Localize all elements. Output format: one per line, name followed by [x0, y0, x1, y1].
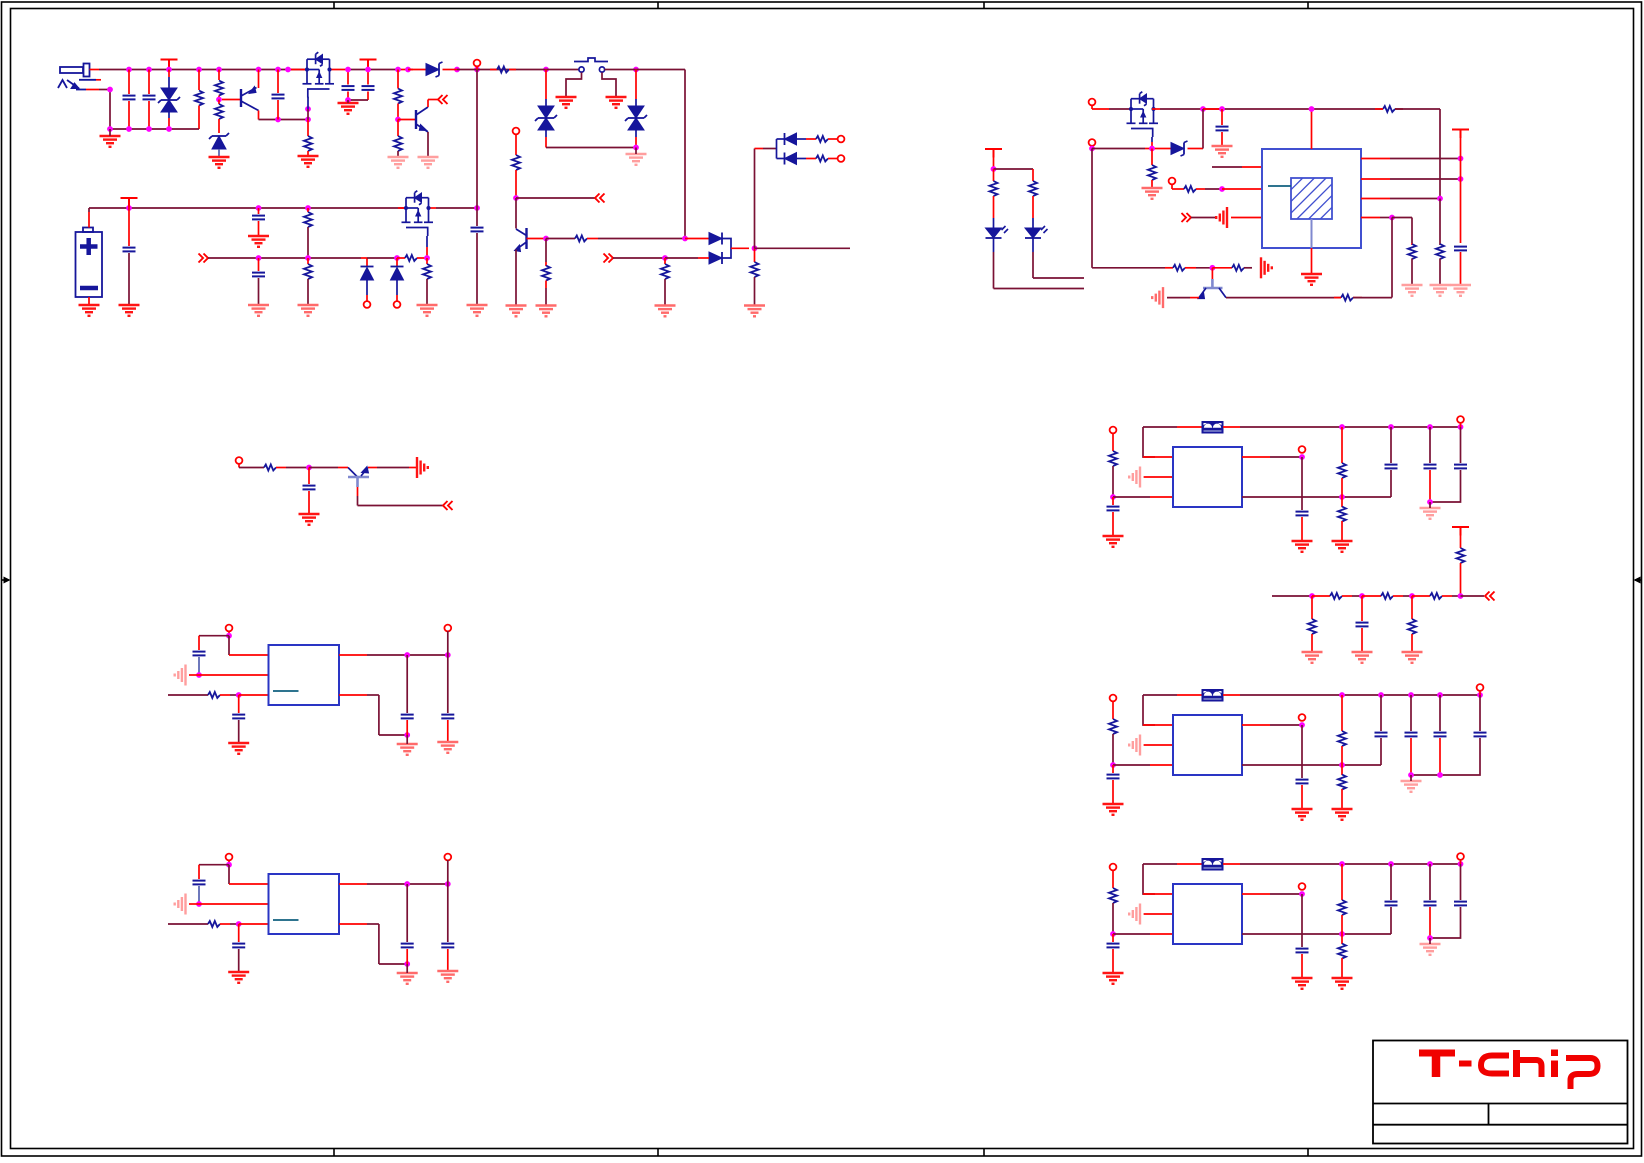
wire IN corner 3 — [1143, 864, 1155, 894]
junction dots VOUT B — [404, 881, 410, 887]
wire FB bus B — [168, 923, 208, 925]
wire FB pin bus 2 — [1242, 764, 1381, 766]
resistor R10 — [664, 258, 666, 264]
ground C-2fb — [1292, 809, 1313, 820]
wire Q7 drain rail — [1152, 108, 1160, 110]
resistor R6 below R5 — [397, 120, 399, 137]
border zone tick marks — [333, 2, 335, 9]
wire port to resistor — [239, 467, 264, 469]
regulator IC U-3 — [1173, 884, 1242, 944]
node R2/R3 divider — [216, 97, 222, 103]
wire Q2 gate — [308, 97, 309, 99]
wire battery sense bus — [208, 257, 361, 259]
capacitor C-B4 — [447, 884, 449, 942]
junction dots battery rail — [126, 205, 132, 211]
resistor R20 — [1151, 149, 1153, 166]
wire IN corner 1 — [1143, 427, 1155, 457]
capacitor C-B3 — [406, 884, 408, 942]
wire Q6 emitter to ground — [368, 467, 377, 469]
wire VOUT pin 2 — [1242, 724, 1270, 726]
wire SW1 frame leg right — [602, 73, 616, 98]
transistor Q3 NPN — [415, 110, 417, 129]
resistor R14 — [307, 208, 309, 212]
regulator IC U-B — [269, 874, 340, 934]
capacitor C3 — [277, 70, 279, 94]
node EN 3 — [1110, 931, 1116, 937]
connector J1 DC power jack — [58, 64, 96, 90]
ground R-1b — [1332, 541, 1353, 552]
wire rail right of SW1 — [605, 69, 686, 71]
port VIN2 — [1089, 99, 1096, 106]
diode D8 to port — [361, 257, 367, 259]
ground zener — [209, 157, 230, 168]
wire Q8 collector right — [1226, 297, 1341, 299]
ground output caps 1 — [1420, 508, 1441, 519]
node port B — [226, 862, 232, 868]
TVS diode D1 bidirectional — [168, 70, 170, 78]
wire R5 to Q3 base — [398, 119, 416, 121]
wire U1 pin right 2 — [1361, 178, 1390, 180]
capacitor C2 — [148, 70, 150, 95]
IC U1 main charger controller — [1262, 149, 1361, 248]
wire divider to Q1 base — [222, 99, 241, 101]
wire enable pin A — [199, 674, 269, 676]
ground C-3fb — [1292, 978, 1313, 989]
wire Q3 emitter to ground — [427, 132, 429, 157]
wire VOUT drop — [476, 70, 478, 209]
wire pin4 down — [1391, 218, 1393, 298]
wire U1 pin right 1 — [1361, 158, 1390, 160]
resistor R19 inline — [1383, 106, 1395, 112]
node VOUT port 3 — [1299, 891, 1305, 897]
resistor R13 below D6 node — [754, 248, 756, 262]
resistor R26 inline — [1341, 295, 1353, 301]
wire battery positive to rail — [88, 212, 90, 228]
wire Q1 collector bus — [259, 119, 309, 121]
ground C11 — [1212, 146, 1233, 157]
power flag VIN — [161, 60, 178, 69]
wire Q1 collector down — [258, 111, 260, 120]
node cap/gnd B — [196, 901, 202, 907]
node FB 1 — [1339, 494, 1345, 500]
capacitor C-1o2 — [1460, 427, 1462, 463]
port PWR-KEY in — [438, 95, 448, 104]
ground rotated Q6 emitter — [417, 457, 428, 478]
node VOUT port 2 — [1299, 722, 1305, 728]
wire port to cap B — [199, 864, 229, 866]
wire port to Q7 — [1092, 108, 1109, 110]
capacitor C-1o1 — [1429, 427, 1431, 463]
wire EN2 to diode — [1092, 148, 1145, 150]
resistor R21 inline — [1184, 186, 1196, 192]
ground rotated Q8 emitter — [1152, 287, 1163, 308]
wire Q4 base — [527, 238, 547, 240]
capacitor C-1fb — [1296, 512, 1309, 516]
port LED2 — [838, 155, 845, 162]
ground rotated R25 — [1261, 257, 1272, 278]
wire port down to IN pin B — [228, 865, 230, 884]
transistor Q8 NPN — [1211, 268, 1213, 279]
wire port down to IN pin A — [228, 636, 230, 655]
ground rotated 3 — [1129, 904, 1140, 925]
capacitor C-3a — [1390, 864, 1392, 900]
node output caps 2 — [1408, 772, 1414, 778]
MOSFET Q5 P-channel with body diode — [402, 198, 434, 228]
transistor Q1 PNP — [240, 89, 242, 107]
ground C-10 — [1103, 536, 1124, 547]
resistor R16 inline — [397, 257, 405, 259]
dual diode D6 — [709, 233, 722, 245]
capacitor C6 — [128, 208, 130, 246]
resistor R15 — [307, 258, 309, 264]
wire VOUT B — [339, 883, 367, 885]
ground R17 — [417, 305, 438, 316]
resistor R-2e — [1112, 701, 1114, 719]
capacitor C-2o1 — [1410, 695, 1412, 731]
node LED supply — [991, 166, 997, 172]
node Q5 gate — [424, 255, 430, 261]
ferrite bead FB-2 — [1143, 694, 1177, 696]
capacitor C-3o1 — [1429, 864, 1431, 900]
capacitor C-A4 — [447, 655, 449, 713]
resistor R7 inline — [490, 69, 497, 71]
port EN2 — [1089, 139, 1096, 146]
node cap join B — [404, 961, 410, 967]
diode D3 series — [408, 69, 426, 71]
wire Q6 base down — [357, 487, 359, 496]
resistor R9b below Q4 base node — [545, 239, 547, 263]
capacitor C-10 — [1112, 497, 1114, 505]
capacitor C-3o2 — [1460, 864, 1462, 900]
right border center arrow — [1634, 577, 1643, 584]
node D6 output — [752, 245, 758, 251]
capacitor C-2o3 — [1479, 695, 1481, 731]
wire VOUT pin 1 — [1242, 456, 1270, 458]
resistor R29 — [1460, 527, 1462, 548]
capacitor C-B2 — [238, 924, 240, 942]
wire rail D3 to switch — [457, 69, 579, 71]
port rail 1 — [1457, 416, 1464, 423]
wire EN to IC 3 — [1113, 933, 1150, 935]
battery BT1 — [76, 228, 103, 298]
resistor R-2t — [1341, 695, 1343, 731]
zener diode D2 — [212, 136, 226, 149]
wire enable pin B — [199, 903, 269, 905]
regulator IC U-2 — [1173, 715, 1242, 775]
IC U1 die lead line — [1268, 185, 1291, 187]
resistor R22 — [1411, 243, 1413, 245]
power flag after Q2 — [360, 60, 377, 69]
capacitor C1 — [128, 70, 130, 95]
ground R4 — [298, 156, 319, 167]
ground R6 — [388, 157, 409, 168]
ground C13 — [1352, 652, 1373, 663]
ferrite bead FB-3 — [1143, 863, 1177, 865]
wire Q8 emitter left — [1190, 297, 1199, 299]
node cap join A — [404, 732, 410, 738]
wire VOUT to FB cap 3 — [1301, 894, 1303, 947]
power flag battery — [121, 198, 138, 207]
port VA in — [226, 625, 233, 632]
port therm 2 — [394, 301, 401, 308]
port ADC in — [1485, 592, 1495, 601]
ground Q4 emitter — [506, 306, 527, 317]
resistor R34 — [1411, 596, 1413, 619]
power flag divider — [1452, 527, 1469, 536]
port VB in — [226, 854, 233, 861]
wire Q7 gate — [1151, 137, 1153, 142]
wire D6 output to right — [755, 247, 851, 249]
node Q8 base — [1210, 265, 1216, 271]
ferrite bead FB-1 — [1143, 426, 1177, 428]
port CHG in — [604, 254, 614, 263]
ground C8 — [248, 305, 269, 316]
resistor R18 inline — [264, 465, 276, 471]
wire SW1 frame leg left — [566, 73, 582, 98]
TVS diode D4 — [545, 70, 547, 100]
wire J1 pin2 to GND node — [86, 89, 99, 91]
node FB2 — [1219, 186, 1225, 192]
capacitor C-20 — [1112, 765, 1114, 773]
node Q7 gate/diode — [1149, 146, 1155, 152]
ground C9 — [467, 305, 488, 316]
MOSFET Q7 P-channel with body diode — [1127, 99, 1159, 129]
capacitor C-A1 — [193, 652, 206, 656]
resistor R-3e — [1112, 870, 1114, 888]
ground R13 — [744, 306, 765, 317]
capacitor C-2o2 — [1439, 695, 1441, 731]
wire TVS common — [546, 147, 636, 149]
port V3 in — [1110, 864, 1117, 871]
wire VOUT to FB cap 1 — [1301, 457, 1303, 510]
ground C4/C5 — [338, 103, 359, 114]
diode D10 — [1158, 148, 1171, 150]
node port A — [226, 633, 232, 639]
IC U1 die ground stem — [1311, 219, 1313, 248]
resistor R27 — [993, 169, 995, 181]
resistor R28 — [1032, 169, 1034, 181]
TVS diode D5 — [635, 70, 637, 100]
port VOUT 3 — [1299, 883, 1306, 890]
title block frame — [1373, 1041, 1628, 1144]
wire diode to drain — [1202, 109, 1204, 149]
node FB A — [236, 692, 242, 698]
port therm 1 — [364, 301, 371, 308]
wire port to cap A — [199, 635, 229, 637]
capacitor C10 — [308, 468, 310, 485]
port rail 2 — [1477, 684, 1484, 691]
ground R22 — [1402, 285, 1423, 296]
ground R20 — [1142, 188, 1163, 199]
resistor R-2b — [1341, 765, 1343, 775]
resistor R-1b — [1341, 497, 1343, 507]
capacitor C5 — [367, 70, 369, 85]
capacitor C-3fb — [1296, 949, 1309, 953]
ground C-A2 — [228, 743, 249, 754]
resistor R-B1 inline — [208, 921, 220, 927]
wire D6 output up to LED pair — [754, 149, 756, 249]
wire VOUT pin 3 — [1242, 893, 1270, 895]
wire CHG to D6 lower — [613, 257, 665, 259]
resistor R11 inline — [816, 136, 828, 142]
wire VOUT A — [339, 654, 367, 656]
ground C6 — [119, 305, 140, 316]
node Q4 base bus — [543, 236, 549, 242]
ground rotated B — [175, 894, 186, 915]
ground R34 — [1402, 652, 1423, 663]
capacitor C-1a — [1390, 427, 1392, 463]
port V2 in — [1110, 695, 1117, 702]
ground output caps 2 — [1401, 781, 1422, 792]
resistor R24 inline — [1165, 267, 1173, 269]
wire LED branch — [994, 168, 1034, 170]
junction dots on VIN rail — [126, 67, 132, 73]
wire battery rail — [89, 207, 406, 209]
resistor R2 upper divider — [218, 70, 220, 81]
wire FB return pin A — [339, 694, 367, 696]
junction Q1 bus — [275, 117, 281, 123]
port mode select — [1182, 213, 1192, 222]
ground R10 — [655, 306, 676, 317]
resistor R12 inline — [816, 156, 828, 162]
ground SW1 right — [606, 97, 627, 108]
node R8/Q4 collector — [513, 195, 519, 201]
ground input filter — [100, 136, 121, 147]
capacitor C13 — [1361, 596, 1363, 621]
resistor R5 — [397, 70, 399, 89]
ground R23 — [1430, 285, 1451, 296]
port VBUS detect — [513, 128, 520, 135]
wire battery negative — [88, 297, 90, 305]
resistor R33 — [1311, 596, 1313, 619]
wire base bus with resistor — [546, 238, 575, 240]
port EN in — [595, 194, 605, 203]
port key out — [443, 501, 453, 510]
ground R9b — [536, 306, 557, 317]
wire node to Q6 — [309, 467, 338, 469]
port LED1 — [838, 136, 845, 143]
wire node to port — [516, 197, 595, 199]
wire FB return pin B — [339, 923, 367, 925]
LED D11 — [986, 228, 1002, 238]
wire top rail 2 — [1240, 694, 1480, 696]
wire FB pin bus 1 — [1242, 496, 1391, 498]
capacitor C7 — [258, 208, 260, 214]
port VOUT B — [444, 854, 451, 861]
node output caps 3 — [1427, 935, 1433, 941]
capacitor C-30 — [1112, 934, 1114, 942]
junction dots rail right of Q2 — [345, 67, 351, 73]
wire switch rail drop — [684, 70, 686, 239]
node J1 pin2 junction — [107, 87, 113, 93]
wire Q1 emitter to rail — [258, 70, 260, 89]
power flag AVDD — [1452, 130, 1469, 139]
resistor R-1e — [1112, 433, 1114, 451]
regulator IC U-A — [269, 645, 340, 705]
wire sense bus cont — [367, 257, 397, 259]
ground C-A4 — [437, 742, 458, 753]
capacitor C-2fb — [1296, 780, 1309, 784]
T-Chip logo — [1419, 1050, 1598, 1090]
resistor R32 inline — [1430, 593, 1442, 599]
node cap/gnd A — [196, 672, 202, 678]
ground U1 — [1301, 274, 1322, 285]
resistor R23 on x1440 — [1439, 199, 1441, 246]
resistor R8 — [515, 134, 517, 155]
capacitor C9 — [476, 208, 478, 226]
wire Q3 collector to port — [427, 100, 429, 108]
port rail 3 — [1457, 853, 1464, 860]
resistor R-1t — [1341, 427, 1343, 463]
node FB B — [236, 921, 242, 927]
MOSFET Q2 P-channel with body diode — [303, 59, 335, 89]
wire EN to IC 2 — [1113, 764, 1150, 766]
ground R15 — [298, 305, 319, 316]
transistor Q6 NPN — [348, 468, 358, 478]
wire U1 pin right 4 — [1361, 217, 1380, 219]
ground rotated mode pin — [1216, 207, 1227, 228]
wire VOUT to FB cap 2 — [1301, 725, 1303, 778]
ground SW1 left — [556, 97, 577, 108]
capacitor C12 — [1454, 247, 1467, 251]
wire U1 ground pin — [1311, 248, 1313, 274]
junction dots VOUT A — [404, 652, 410, 658]
wire top rail 1 — [1240, 426, 1461, 428]
wire to right column — [1439, 109, 1441, 199]
capacitor C-A3 — [406, 655, 408, 713]
wire EN to IC 1 — [1113, 496, 1150, 498]
port feedback FB2 — [1169, 178, 1176, 185]
capacitor C-B1 — [193, 881, 206, 885]
ground rotated A — [175, 665, 186, 686]
wire LED2 return — [1033, 277, 1084, 279]
ground TVS common — [626, 154, 647, 165]
ground C-1fb — [1292, 541, 1313, 552]
ground rotated 2 — [1129, 735, 1140, 756]
wire U1 top supply pin — [1311, 109, 1313, 149]
resistor R17 gate pulldown — [426, 258, 428, 264]
resistor R25 inline — [1212, 267, 1232, 269]
capacitor C-2a — [1380, 695, 1382, 731]
left border center arrow — [2, 577, 11, 584]
resistor R3 lower divider — [218, 100, 220, 105]
wire stub NC pin — [1212, 166, 1242, 168]
resistor R30 inline — [1330, 593, 1342, 599]
port VOUT 2 — [1299, 714, 1306, 721]
node output caps 2 — [1437, 772, 1443, 778]
node R18/C10 — [306, 465, 312, 471]
regulator IC U-1 — [1173, 447, 1242, 507]
wire Q4 emitter to ground — [515, 250, 517, 306]
wire FB bus A — [168, 694, 208, 696]
node EN2 — [1089, 146, 1095, 152]
node EN 1 — [1110, 494, 1116, 500]
junction drain/diode — [1200, 106, 1206, 112]
ground rotated 1 — [1129, 467, 1140, 488]
node VOUT port 1 — [1299, 454, 1305, 460]
ground C-20 — [1103, 804, 1124, 815]
resistor R-3b — [1341, 934, 1343, 944]
ground R-2b — [1332, 809, 1353, 820]
power flag LED supply — [985, 149, 1002, 158]
node EN 2 — [1110, 762, 1116, 768]
ground C-A3 — [397, 744, 418, 755]
capacitor C11 — [1221, 109, 1223, 125]
transistor Q4 NPN — [515, 198, 517, 229]
ground battery — [79, 305, 100, 316]
resistor R1 — [198, 70, 200, 91]
node output caps 1 — [1427, 499, 1433, 505]
